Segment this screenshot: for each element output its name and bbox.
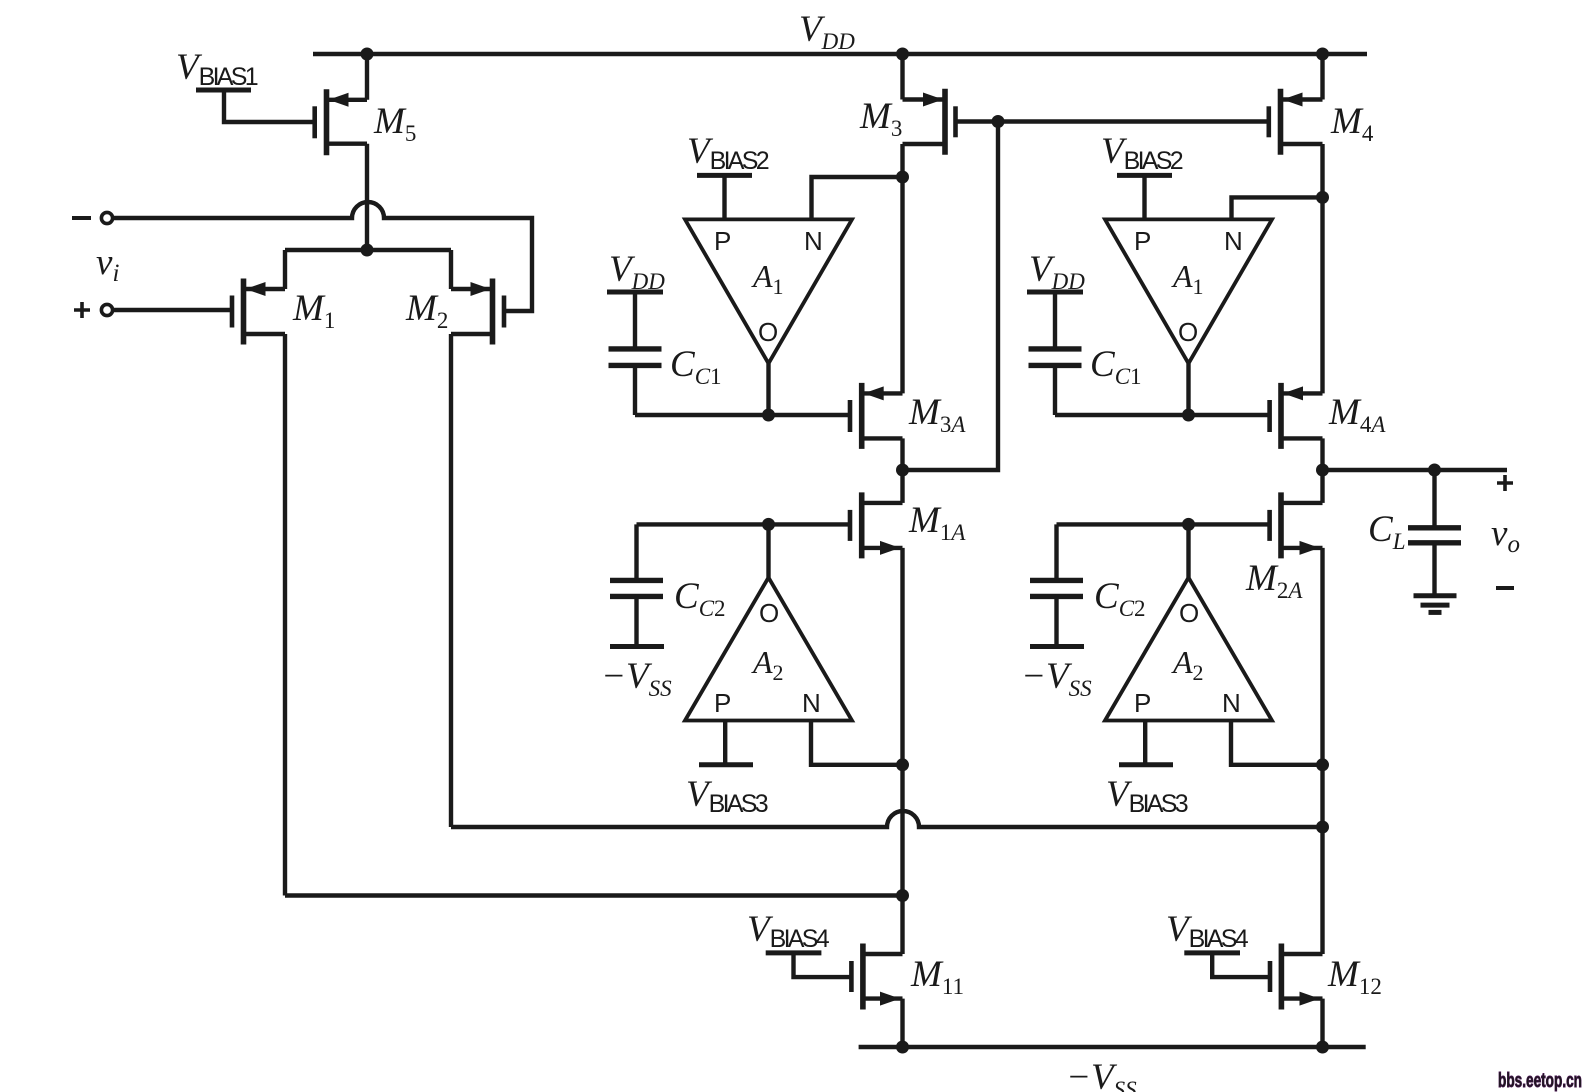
svg-text:VBIAS3: VBIAS3 (1106, 774, 1189, 818)
VDD terminal label (right CC1) (1029, 249, 1085, 294)
pin N label of left A1 (804, 226, 823, 256)
input terminal circle (negative) (101, 212, 112, 223)
A2 designator label (right) (1171, 644, 1204, 685)
VBIAS1 bias terminal bar (196, 88, 251, 93)
VDD terminal bar (left CC1) (607, 290, 663, 295)
svg-text:VBIAS2: VBIAS2 (1101, 131, 1184, 175)
node VDD label (799, 9, 855, 54)
svg-text:O: O (1178, 317, 1198, 347)
svg-text:M2: M2 (405, 288, 448, 333)
svg-text:P: P (1134, 226, 1151, 256)
junction right A2 N tap (1316, 758, 1329, 771)
transistor M3A (PMOS cascode) (850, 383, 903, 449)
wire M3 drain down to M3A source (900, 144, 904, 393)
svg-text:M4: M4 (1330, 101, 1374, 146)
M1 label (292, 288, 335, 333)
svg-text:bbs.eetop.cn: bbs.eetop.cn (1498, 1070, 1582, 1092)
wire left A2 N input to M1A source line (811, 721, 903, 765)
M4A label (1328, 392, 1386, 437)
-VSS terminal label (left CC2) (601, 656, 672, 701)
op-amp A1 (right gain-boost amplifier) (1105, 219, 1272, 363)
svg-text:M3A: M3A (908, 392, 966, 437)
VBIAS3 label (right) (1106, 774, 1189, 818)
M4 label (1330, 101, 1374, 146)
junction on VDD rail at M3 source (896, 48, 909, 61)
svg-text:P: P (1134, 688, 1151, 718)
svg-text:N: N (1224, 226, 1243, 256)
junction tail node (361, 244, 374, 257)
svg-text:VBIAS3: VBIAS3 (686, 774, 769, 818)
M2A label (1245, 558, 1303, 603)
svg-text:M5: M5 (373, 101, 416, 146)
junction VSS rail at M12 (1316, 1041, 1329, 1054)
junction M3 drain / A1 N input (896, 171, 909, 184)
capacitor CC1 (left) (609, 292, 662, 415)
wire CC1 / A1 output to M3A gate (left) (635, 413, 848, 417)
wire M3 gate to M4 gate (956, 119, 1269, 123)
wire M1 drain down to bottom left bus (283, 334, 287, 896)
capacitor CL (1408, 470, 1461, 596)
VBIAS3 bias terminal bar (right) (1119, 762, 1173, 767)
junction bus A at M2A source line (1316, 821, 1329, 834)
wire VBIAS4 to M11 gate (794, 953, 851, 977)
junction gate bus tap (992, 115, 1005, 128)
capacitor CC2 (right) (1030, 524, 1083, 646)
svg-text:M1A: M1A (908, 500, 966, 545)
junction M4 drain / right A1 N input (1316, 191, 1329, 204)
wire M4A drain to output node (1320, 438, 1324, 470)
wire right A2 P input to VBIAS3 (1143, 721, 1147, 765)
op-amp A1 (left gain-boost amplifier) (685, 219, 852, 363)
svg-text:O: O (758, 317, 778, 347)
svg-text:−VSS: −VSS (1066, 1057, 1137, 1092)
wire gate bus down to cascode node (903, 122, 999, 471)
wire VBIAS2 to right A1 P input (1142, 175, 1146, 219)
wire left A1 output down (766, 363, 770, 415)
M3 label (859, 96, 902, 141)
wire M5 source to VDD rail (365, 54, 369, 100)
wire M4 source to VDD rail (1320, 54, 1324, 100)
CC2 value label (right) (1094, 576, 1146, 621)
transistor M2 (PMOS input) (451, 279, 504, 345)
pin O label of right A1 (1178, 317, 1198, 347)
VDD terminal label (left CC1) (609, 249, 665, 294)
wire left A2 P input to VBIAS3 (723, 721, 727, 765)
svg-text:M2A: M2A (1245, 558, 1303, 603)
junction output node (1316, 464, 1329, 477)
svg-text:CL: CL (1368, 509, 1405, 554)
junction left A2 output node (762, 518, 775, 531)
svg-text:VBIAS4: VBIAS4 (1166, 909, 1249, 953)
capacitor CC1 (right) (1029, 292, 1082, 415)
svg-text:−VSS: −VSS (601, 656, 672, 701)
wire M12 source to VSS rail (1320, 999, 1324, 1047)
input terminal minus sign (72, 216, 91, 220)
svg-text:CC2: CC2 (674, 576, 726, 621)
svg-text:O: O (1179, 598, 1199, 628)
M2 label (405, 288, 448, 333)
pin N label of right A1 (1224, 226, 1243, 256)
output terminal minus sign (1496, 586, 1514, 590)
A1 designator label (left) (751, 258, 784, 299)
junction right A1 output node (1182, 409, 1195, 422)
M12 label (1327, 954, 1382, 999)
svg-text:VBIAS2: VBIAS2 (687, 131, 770, 175)
wire VBIAS1 to M5 gate (224, 90, 313, 122)
wire CC2 / A2 output to M1A gate (left) (637, 522, 849, 526)
junction cascode node (left) (896, 464, 909, 477)
CC1 value label (left) (670, 344, 722, 389)
pin O label of left A1 (758, 317, 778, 347)
capacitor CC2 (left) (610, 524, 663, 646)
transistor M1A (NMOS cascode) (850, 492, 903, 558)
svg-text:N: N (1222, 688, 1241, 718)
wire VBIAS4 to M12 gate (1212, 953, 1268, 977)
power rail -VSS (bottom) (859, 1045, 1366, 1049)
pin P label of right A2 (1134, 688, 1151, 718)
ground symbol (1414, 596, 1457, 613)
VBIAS2 bias terminal bar (left) (697, 173, 752, 178)
VBIAS2 bias terminal bar (right) (1117, 173, 1172, 178)
node vi label (96, 242, 119, 287)
VBIAS2 label (left) (687, 131, 770, 175)
input terminal circle (positive) (101, 304, 112, 315)
wire M2A drain to output node (1320, 470, 1324, 503)
VBIAS4 bias terminal bar (right) (1184, 950, 1240, 955)
svg-text:VDD: VDD (799, 9, 855, 54)
svg-text:M12: M12 (1327, 954, 1382, 999)
svg-text:N: N (804, 226, 823, 256)
wire left A1 N input to M3 drain (812, 177, 903, 219)
transistor M4A (PMOS cascode) (1270, 383, 1323, 449)
transistor M11 (NMOS current sink) (851, 944, 902, 1010)
svg-text:CC1: CC1 (670, 344, 722, 389)
node vo label (1491, 513, 1520, 558)
svg-text:vi: vi (96, 242, 119, 287)
transistor M2A (NMOS cascode) (1270, 492, 1323, 558)
VBIAS3 label (left) (686, 774, 769, 818)
wire M1A source down to M11 drain (passes crossover, A2 N tap, bus B) (900, 548, 904, 954)
pin N label of right A2 (1222, 688, 1241, 718)
input terminal plus sign (74, 302, 90, 318)
watermark bbs.eetop.cn (1498, 1070, 1582, 1092)
wire CC2 / A2 output to M2A gate (right) (1057, 522, 1269, 526)
transistor M5 (PMOS) (315, 89, 367, 155)
svg-text:CC2: CC2 (1094, 576, 1146, 621)
svg-text:N: N (802, 688, 821, 718)
wire M4 drain down to M4A source (1320, 144, 1324, 393)
svg-text:vo: vo (1491, 513, 1520, 558)
wire right A2 N input to M2A source line (1231, 721, 1323, 765)
wire M1 drain bus to M11 drain line (285, 893, 903, 897)
wire M11 source to VSS rail (900, 999, 904, 1047)
svg-text:CC1: CC1 (1090, 344, 1142, 389)
-VSS terminal label (right CC2) (1021, 656, 1092, 701)
wire M3 source to VDD rail (900, 54, 904, 100)
M5 label (373, 101, 416, 146)
wire CC1 / A1 output to M4A gate (right) (1055, 413, 1268, 417)
svg-text:VDD: VDD (1029, 249, 1085, 294)
output terminal plus sign (1497, 475, 1513, 491)
transistor M3 (PMOS) (903, 89, 956, 155)
pin N label of left A2 (802, 688, 821, 718)
VBIAS2 label (right) (1101, 131, 1184, 175)
wire output node to vo terminal (1323, 468, 1508, 472)
VDD terminal bar (right CC1) (1027, 290, 1083, 295)
CC2 value label (left) (674, 576, 726, 621)
op-amp A2 (right gain-boost amplifier) (1105, 578, 1272, 721)
svg-text:VDD: VDD (609, 249, 665, 294)
A1 designator label (right) (1171, 258, 1204, 299)
wire common source rail M1-M2 (285, 250, 451, 289)
wire M3A drain to cascode node (900, 438, 904, 470)
-VSS terminal bar (left CC2) (610, 644, 664, 649)
svg-text:P: P (714, 688, 731, 718)
wire right A1 N input to M4 drain (1232, 197, 1323, 219)
transistor M12 (NMOS current sink) (1270, 944, 1323, 1010)
svg-text:P: P (714, 226, 731, 256)
wire M5 drain to tail node (passes under input crossover) (365, 144, 369, 250)
M11 label (910, 954, 964, 999)
wire negative input to M2 gate (with crossover hop) (113, 202, 532, 311)
wire right A2 output up to M2A gate line (1186, 524, 1190, 577)
wire positive input to M1 gate (113, 308, 230, 312)
junction left A1 output node (762, 409, 775, 422)
junction on VDD rail at M5 source (361, 48, 374, 61)
VBIAS4 bias terminal bar (left) (766, 950, 822, 955)
wire M2A source down to M12 drain (1320, 548, 1324, 954)
svg-text:VBIAS1: VBIAS1 (176, 47, 259, 91)
VBIAS3 bias terminal bar (left) (699, 762, 753, 767)
A2 designator label (left) (751, 644, 784, 685)
wire right A1 output down (1186, 363, 1190, 415)
svg-text:M3: M3 (859, 96, 902, 141)
VBIAS4 label (right) (1166, 909, 1249, 953)
pin P label of left A2 (714, 688, 731, 718)
pin O label of left A2 (759, 598, 779, 628)
junction VSS rail at M11 (896, 1041, 909, 1054)
junction left A2 N tap (896, 758, 909, 771)
junction on VDD rail at M4 source (1316, 48, 1329, 61)
wire M1A drain to cascode node (900, 470, 904, 503)
M3A label (908, 392, 966, 437)
svg-text:O: O (759, 598, 779, 628)
op-amp A2 (left gain-boost amplifier) (685, 578, 852, 721)
svg-text:VBIAS4: VBIAS4 (747, 909, 830, 953)
svg-text:M1: M1 (292, 288, 335, 333)
wire left A2 output up to M1A gate line (766, 524, 770, 577)
VBIAS1 label (176, 47, 259, 91)
junction CL tap (1428, 464, 1441, 477)
wire VBIAS2 to A1 P input (left) (722, 175, 726, 219)
wire M2 drain down to mid bus (449, 334, 453, 827)
svg-text:M4A: M4A (1328, 392, 1386, 437)
-VSS terminal bar (right CC2) (1030, 644, 1084, 649)
node -VSS label (bottom) (1066, 1057, 1137, 1092)
svg-text:M11: M11 (910, 954, 964, 999)
CC1 value label (right) (1090, 344, 1142, 389)
pin O label of right A2 (1179, 598, 1199, 628)
junction right A2 output node (1182, 518, 1195, 531)
CL value label (1368, 509, 1405, 554)
transistor M4 (PMOS) (1269, 89, 1323, 155)
power rail VDD (top) (313, 52, 1367, 56)
junction bus B at M11 drain line (896, 889, 909, 902)
transistor M1 (PMOS input) (232, 279, 285, 345)
pin P label of right A1 (1134, 226, 1151, 256)
pin P label of left A1 (714, 226, 731, 256)
M1A label (908, 500, 966, 545)
svg-text:−VSS: −VSS (1021, 656, 1092, 701)
VBIAS4 label (left) (747, 909, 830, 953)
wire M2 drain bus to M2A source line (with crossover hop) (451, 811, 1323, 827)
